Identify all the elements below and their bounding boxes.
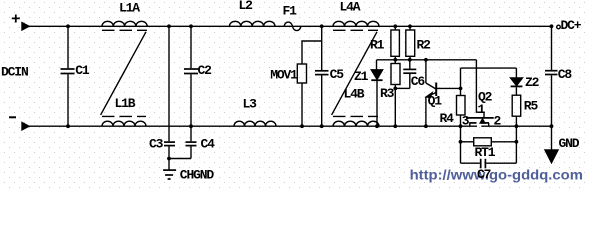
node F1/C5 bbox=[320, 24, 324, 28]
wire R3/C6 bottom node bbox=[395, 88, 410, 126]
terminal DC+ circle bbox=[557, 25, 561, 29]
svg-text:C4: C4 bbox=[201, 137, 216, 152]
svg-text:C5: C5 bbox=[330, 67, 345, 82]
svg-text:F1: F1 bbox=[283, 4, 298, 19]
wire RT1/C7 ladder verticals bbox=[461, 126, 517, 163]
fuse F1 bbox=[284, 22, 301, 31]
resistor R5 bbox=[512, 95, 521, 126]
capacitor C4 bbox=[186, 126, 197, 158]
svg-text:R3: R3 bbox=[380, 86, 395, 101]
ground GND arrow bbox=[545, 126, 558, 163]
svg-text:CHGND: CHGND bbox=[180, 168, 215, 183]
inductor L2 bbox=[229, 21, 275, 26]
svg-text:RT1: RT1 bbox=[475, 145, 496, 160]
capacitor C6 bbox=[403, 60, 416, 89]
terminal DCIN + arrow bbox=[22, 23, 29, 30]
capacitor C1 bbox=[61, 26, 75, 126]
svg-text:L1A: L1A bbox=[119, 0, 140, 15]
svg-text:GND: GND bbox=[559, 136, 580, 151]
transistor Q1 bbox=[426, 60, 461, 126]
node C5 bottom bbox=[320, 124, 324, 128]
node R1/R3 bbox=[393, 58, 397, 62]
svg-text:R4: R4 bbox=[440, 111, 455, 126]
node Q1 base/R4 bbox=[459, 87, 463, 91]
wire Q2-gate drop bbox=[476, 60, 484, 117]
svg-text:C8: C8 bbox=[558, 67, 573, 82]
minus sign bbox=[9, 116, 16, 118]
node Q1 emitter bbox=[424, 124, 428, 128]
svg-text:L2: L2 bbox=[239, 0, 254, 13]
node C3 top bbox=[167, 24, 171, 28]
wire divider node branch bbox=[461, 68, 517, 88]
svg-text:L4B: L4B bbox=[344, 87, 365, 102]
capacitor C7 bbox=[461, 159, 517, 169]
svg-text:R2: R2 bbox=[417, 38, 432, 53]
choke L1 coupling slash bbox=[101, 32, 146, 115]
svg-text:C2: C2 bbox=[198, 63, 213, 78]
node R5 bottom bbox=[515, 124, 519, 128]
node C8 bottom bbox=[550, 124, 554, 128]
capacitor C3 (Y-cap from top rail, crosses bottom rail) bbox=[164, 26, 175, 158]
node C4 top bbox=[189, 124, 193, 128]
node C1 bottom bbox=[66, 124, 70, 128]
wire top rail bbox=[29, 25, 552, 27]
svg-text:Q1: Q1 bbox=[428, 94, 443, 109]
wire gate node bbox=[377, 59, 477, 61]
svg-text:L1B: L1B bbox=[115, 96, 136, 111]
node Q1 collector bbox=[424, 58, 428, 62]
svg-text:L4A: L4A bbox=[340, 0, 361, 15]
zener Z2 bbox=[511, 68, 523, 95]
svg-text:C1: C1 bbox=[75, 63, 90, 78]
wire bottom rail left of Q2 bbox=[29, 125, 477, 127]
svg-text:+: + bbox=[11, 11, 20, 29]
node C1 top bbox=[66, 24, 70, 28]
thermistor RT1 bbox=[461, 138, 517, 146]
node RT1 right bbox=[515, 140, 519, 144]
svg-text:DC+: DC+ bbox=[561, 18, 582, 33]
capacitor C2 bbox=[184, 26, 198, 126]
resistor R3 bbox=[391, 60, 400, 89]
svg-text:C7: C7 bbox=[477, 167, 491, 182]
capacitor C8 bbox=[545, 26, 558, 126]
resistor R4 bbox=[457, 88, 466, 126]
svg-text:Z2: Z2 bbox=[525, 75, 540, 90]
wire branch from C5 column to MOV1 bbox=[302, 41, 322, 64]
mosfet Q2 bbox=[466, 118, 494, 126]
resistor R1 bbox=[391, 26, 400, 60]
inductor L4A bbox=[333, 21, 379, 30]
node Z1 bottom bbox=[375, 124, 379, 128]
svg-text:DCIN: DCIN bbox=[1, 65, 28, 80]
node RT1 left bbox=[459, 140, 463, 144]
capacitor C5 bbox=[315, 26, 329, 126]
varistor MOV1 bbox=[297, 64, 306, 126]
node R2 top bbox=[408, 24, 412, 28]
node R1 top bbox=[393, 24, 397, 28]
node C2 top bbox=[189, 24, 193, 28]
node R3 bottom bbox=[393, 124, 397, 128]
svg-text:Z1: Z1 bbox=[354, 69, 369, 84]
svg-text:R1: R1 bbox=[370, 38, 385, 53]
svg-text:L3: L3 bbox=[243, 97, 258, 112]
svg-text:MOV1: MOV1 bbox=[270, 68, 298, 83]
svg-text:C3: C3 bbox=[149, 137, 164, 152]
node MOV1 bottom bbox=[300, 124, 304, 128]
inductor L1B bbox=[102, 116, 146, 126]
zener Z1 bbox=[371, 60, 382, 126]
ground CHGND bbox=[163, 159, 176, 180]
node R3/C6 bottom bbox=[393, 87, 397, 91]
wire joining C3/C4 bottoms bbox=[169, 158, 191, 160]
inductor L4B bbox=[333, 116, 379, 126]
resistor R2 bbox=[406, 26, 415, 60]
node R4 bottom bbox=[459, 124, 463, 128]
inductor L1A bbox=[102, 21, 147, 30]
svg-text:R5: R5 bbox=[524, 99, 539, 114]
svg-text:http://www.go-gddq.com: http://www.go-gddq.com bbox=[410, 166, 583, 182]
node C8 top bbox=[550, 24, 554, 28]
choke L4 coupling slash bbox=[332, 32, 377, 115]
node CHGND bbox=[167, 157, 171, 161]
terminal DCIN - arrow bbox=[22, 123, 29, 130]
svg-text:C6: C6 bbox=[411, 74, 426, 89]
wire bottom rail right of Q2 bbox=[481, 125, 551, 127]
inductor L3 bbox=[234, 121, 276, 126]
node R2/C6 bbox=[408, 58, 412, 62]
